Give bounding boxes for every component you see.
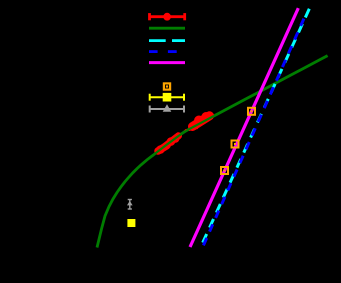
legend row 2: green solid line xyxy=(149,27,185,30)
red data cluster 1 xyxy=(156,127,198,154)
legend row 4: blue dashed line xyxy=(149,50,158,53)
blue dashed line xyxy=(203,19,304,248)
gray triangle data point with error bar xyxy=(128,200,132,210)
yellow square data point xyxy=(127,219,135,227)
legend row 8: gray triangle with error bar xyxy=(150,106,184,113)
legend row 7: yellow square with error bar xyxy=(150,94,184,101)
green theory curve xyxy=(97,56,328,248)
orange open squares on magenta line xyxy=(221,108,255,174)
green line over red (redraw segment) xyxy=(150,116,214,158)
red data cluster 2 xyxy=(193,112,211,127)
legend row 5: magenta solid line xyxy=(149,61,185,64)
legend row 1: red point with error bar xyxy=(150,13,185,20)
cyan dashed line xyxy=(201,9,310,248)
legend row 3: cyan dashed line xyxy=(149,39,166,42)
magenta line xyxy=(190,8,298,247)
legend row 6: orange open square xyxy=(164,83,170,89)
